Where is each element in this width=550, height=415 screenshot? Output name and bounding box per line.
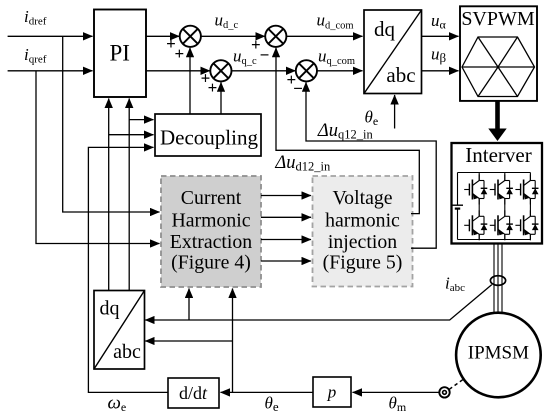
svg-text:SVPWM: SVPWM (461, 8, 535, 30)
svg-text:+: + (174, 44, 184, 63)
svg-text:Extraction: Extraction (170, 231, 252, 253)
svg-text:−: − (260, 45, 270, 64)
svg-text:+: + (208, 78, 218, 97)
svg-text:Voltage: Voltage (332, 187, 392, 209)
svg-text:abc: abc (113, 341, 141, 363)
svg-text:p: p (327, 383, 337, 402)
svg-text:Current: Current (181, 187, 242, 209)
svg-text:abc: abc (386, 63, 415, 87)
svg-text:d/dt: d/dt (179, 383, 208, 403)
svg-text:−: − (293, 79, 303, 98)
svg-text:dq: dq (100, 298, 120, 320)
svg-text:harmonic: harmonic (325, 209, 400, 231)
svg-text:injection: injection (328, 231, 397, 253)
svg-text:Harmonic: Harmonic (171, 209, 250, 231)
svg-text:Decoupling: Decoupling (160, 126, 258, 150)
svg-text:dq: dq (374, 17, 396, 41)
svg-text:PI: PI (109, 41, 129, 66)
svg-text:(Figure 5): (Figure 5) (323, 252, 403, 274)
svg-text:Interver: Interver (465, 143, 531, 167)
svg-text:(Figure 4): (Figure 4) (171, 252, 251, 274)
svg-text:IPMSM: IPMSM (468, 343, 529, 364)
